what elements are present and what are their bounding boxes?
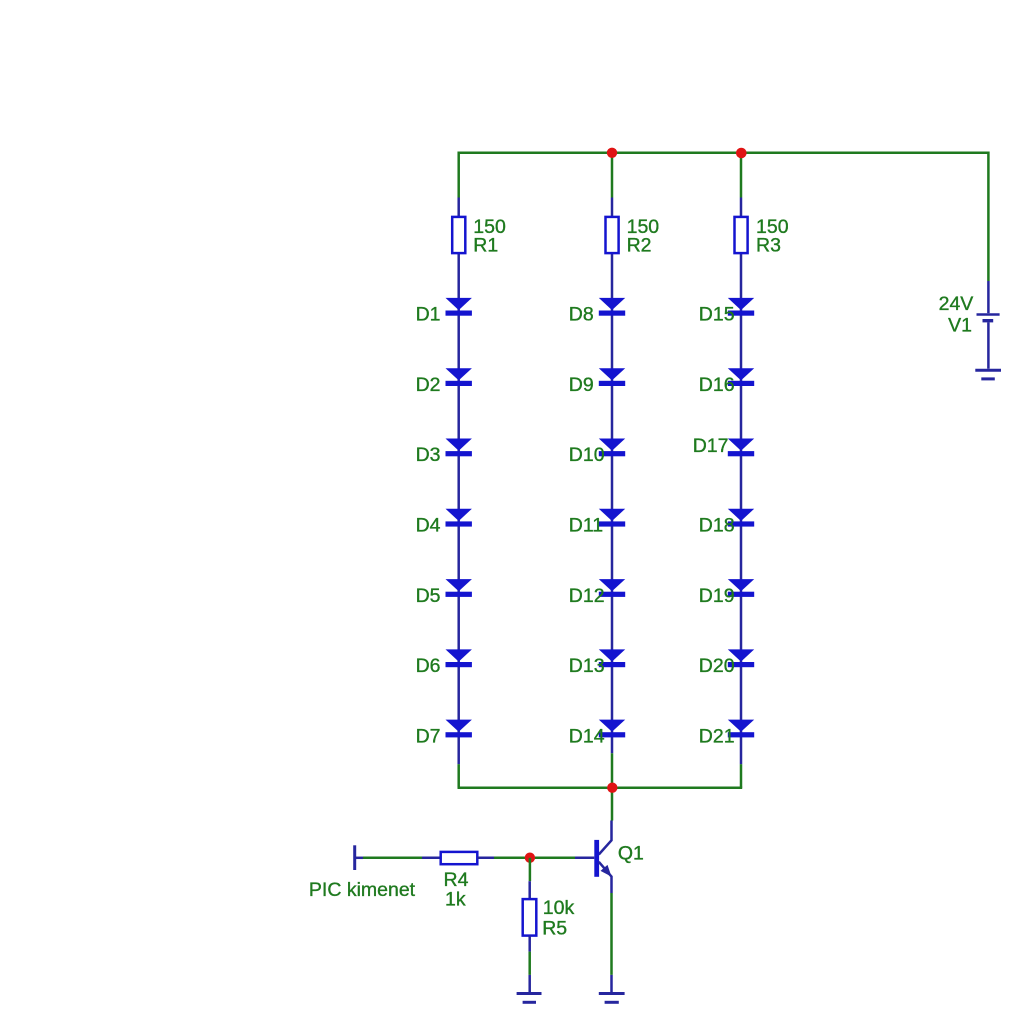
- battery V1: [977, 281, 1000, 369]
- wire: R5 to ground: [528, 952, 531, 975]
- svg-text:PIC kimenet: PIC kimenet: [309, 879, 416, 901]
- svg-text:D12: D12: [569, 585, 605, 607]
- pin: R4 left pin: [422, 857, 441, 860]
- junction: rail / R2 branch: [607, 148, 617, 158]
- svg-text:10k: 10k: [543, 897, 575, 919]
- diode D15: [728, 298, 754, 316]
- svg-text:D17: D17: [693, 435, 729, 457]
- ground under R5: [517, 994, 542, 1003]
- diode D17: [728, 439, 754, 457]
- svg-text:D13: D13: [569, 655, 605, 677]
- svg-text:1k: 1k: [445, 889, 466, 911]
- svg-text:R2: R2: [627, 235, 652, 257]
- wire: terminal to R4: [363, 857, 422, 860]
- junction: bottom rail / collector node: [607, 783, 617, 793]
- resistor R1 body: [452, 217, 465, 253]
- pin: V1 negative lead: [987, 322, 990, 368]
- diode D5: [446, 579, 472, 597]
- svg-text:D14: D14: [569, 725, 605, 747]
- ground under Q1 emitter: [599, 994, 625, 1003]
- wire: top supply rail with corners down to R1 pin and to V1: [459, 153, 989, 281]
- svg-text:D19: D19: [699, 585, 735, 607]
- diode D14: [599, 720, 625, 738]
- wire: base node down to R5: [529, 858, 532, 881]
- wire: rail drop to R2: [611, 153, 614, 198]
- wire: R4 to base node to Q1: [494, 857, 575, 860]
- diode D3: [446, 439, 472, 457]
- wire: rail drop to R3: [740, 153, 743, 198]
- diode D19: [728, 579, 754, 597]
- svg-text:R3: R3: [756, 235, 781, 257]
- pin: R5 top pin: [528, 881, 531, 899]
- svg-text:D5: D5: [416, 585, 441, 607]
- diode D9: [599, 368, 625, 386]
- pin: ground pin under Q1: [610, 975, 613, 994]
- svg-text:D16: D16: [699, 374, 735, 396]
- resistor R3 body: [735, 217, 748, 253]
- Q1 emitter arrow: [601, 865, 612, 877]
- pin: R2 top pin: [611, 198, 614, 218]
- svg-text:D3: D3: [416, 444, 441, 466]
- svg-text:D9: D9: [569, 374, 594, 396]
- pin: Q1 base pin: [575, 857, 594, 860]
- svg-text:D10: D10: [569, 444, 605, 466]
- svg-text:D6: D6: [416, 655, 441, 677]
- wire: column 3 drop to bottom rail: [740, 764, 743, 788]
- wire: column 3 interconnect R3 to D15..D21: [740, 253, 743, 764]
- diode D20: [728, 649, 754, 667]
- diode D6: [446, 649, 472, 667]
- junction: rail / R3 branch: [736, 148, 747, 159]
- diode D12: [599, 579, 625, 597]
- wire: column 1 interconnect R1 to D1..D7: [457, 253, 460, 764]
- pin: R3 top pin: [740, 198, 743, 218]
- pin: ground pin under R5: [528, 975, 531, 994]
- pin: R5 bottom pin: [528, 936, 531, 952]
- svg-text:D4: D4: [416, 515, 441, 537]
- diode D1: [446, 298, 472, 316]
- pin: terminal stub: [355, 857, 363, 860]
- junction: base node / R5: [525, 853, 535, 863]
- diode D7: [446, 720, 472, 738]
- resistor R2 body: [606, 217, 619, 253]
- svg-text:D2: D2: [416, 374, 441, 396]
- svg-text:D11: D11: [569, 515, 603, 537]
- resistor R4 body: [441, 852, 478, 864]
- wire: column 1 drop to bottom rail: [457, 764, 460, 788]
- pin: R4 right pin: [477, 857, 494, 860]
- resistor R5 body: [523, 899, 537, 936]
- svg-text:D15: D15: [699, 304, 735, 326]
- wire: bottom rail: [458, 786, 743, 789]
- diode D13: [599, 649, 625, 667]
- svg-text:D18: D18: [699, 515, 735, 537]
- svg-text:Q1: Q1: [618, 843, 644, 865]
- diode D18: [728, 509, 754, 527]
- diode D4: [446, 509, 472, 527]
- ground at V1: [975, 370, 1001, 379]
- V1 plate long (positive): [977, 313, 1000, 316]
- diode D10: [599, 439, 625, 457]
- svg-text:R5: R5: [542, 917, 567, 939]
- svg-text:D21: D21: [699, 725, 735, 747]
- svg-text:D20: D20: [699, 655, 735, 677]
- svg-text:D1: D1: [416, 304, 441, 326]
- wire: Q1 emitter to ground: [610, 893, 613, 975]
- V1 plate short (negative): [983, 319, 994, 322]
- svg-text:24V: 24V: [939, 293, 974, 315]
- terminal: PIC kimenet input: [353, 845, 356, 870]
- Q1 base bar: [594, 840, 599, 877]
- pin: R1 top pin: [457, 198, 460, 218]
- pin: V1 positive pin: [987, 281, 990, 313]
- diode D8: [599, 298, 625, 316]
- diode D21: [728, 720, 754, 738]
- svg-text:R1: R1: [473, 235, 498, 257]
- diode D16: [728, 368, 754, 386]
- diode D2: [446, 368, 472, 386]
- svg-text:D7: D7: [416, 725, 441, 747]
- diode D11: [599, 509, 625, 527]
- pin: Q1 emitter lead: [599, 862, 612, 893]
- svg-text:D8: D8: [569, 304, 594, 326]
- wire: column 2 interconnect R2 to D8..D14: [611, 253, 614, 753]
- transistor Q1: [594, 821, 611, 894]
- svg-text:V1: V1: [948, 315, 972, 337]
- wire: column 2 through rail down to Q1 collector: [611, 753, 614, 820]
- pin: Q1 collector lead: [599, 821, 612, 855]
